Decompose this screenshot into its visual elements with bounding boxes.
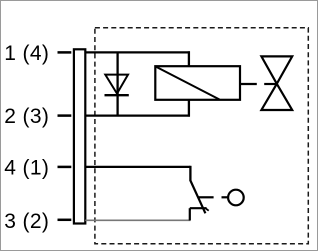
wire net 1 (top) <box>85 51 190 53</box>
switch riser <box>189 208 191 220</box>
svg-text:2 (3): 2 (3) <box>4 105 49 128</box>
wire vertical coil bottom <box>188 100 190 117</box>
stub wire pin 4 <box>58 166 72 169</box>
link to indicator segment 1 <box>199 196 214 198</box>
stub wire pin 1 <box>58 51 72 54</box>
indicator circle <box>228 190 244 206</box>
diode D1 vertical wire <box>116 52 118 115</box>
stub wire pin 3 <box>58 219 72 222</box>
switch fixed contact horizontal <box>190 207 207 209</box>
connector bar <box>74 49 85 223</box>
wire net 3 (thin) <box>85 219 190 221</box>
coil diagonal <box>156 67 220 100</box>
switch blade <box>190 181 205 214</box>
link to indicator segment 2 <box>222 196 228 198</box>
svg-text:1 (4): 1 (4) <box>4 42 49 65</box>
wire vertical coil top <box>188 51 190 66</box>
wire net 2 <box>85 114 190 116</box>
dashed enclosure box <box>95 28 308 244</box>
switch corner drop <box>189 166 191 181</box>
valve upper triangle <box>261 56 292 83</box>
valve lower triangle <box>261 84 292 110</box>
contact barb tick <box>205 208 209 211</box>
svg-text:3 (2): 3 (2) <box>4 210 49 233</box>
stub wire pin 2 <box>58 114 72 117</box>
solenoid coil box <box>155 66 240 100</box>
diode D1 cathode bar <box>105 94 129 96</box>
svg-text:4 (1): 4 (1) <box>4 157 49 180</box>
valve link segment <box>264 83 277 85</box>
coil to valve stub <box>240 83 257 85</box>
diode D1 triangle <box>105 75 128 94</box>
wire net 4 <box>85 166 190 168</box>
